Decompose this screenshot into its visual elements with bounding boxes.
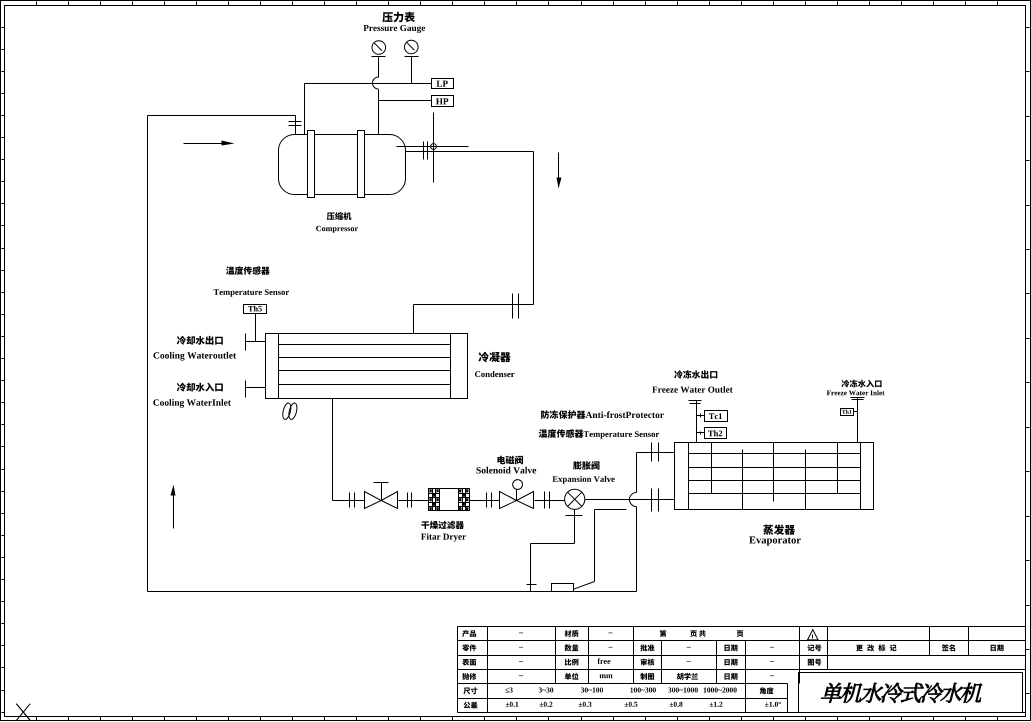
label Freeze Water Inlet — [827, 390, 885, 395]
cooling water inlet stub — [246, 381, 266, 398]
label Freeze Water Outlet — [652, 386, 733, 393]
label Pressure Gauge — [363, 25, 425, 33]
frame zone ticks left — [2, 28, 5, 713]
compressor band left — [308, 131, 315, 198]
equalizer tap tick — [527, 584, 537, 586]
freeze water inlet stub — [851, 398, 865, 443]
sensing bulb box — [552, 584, 574, 592]
condenser fan symbol — [281, 402, 298, 420]
gauge 2 stem — [411, 57, 413, 84]
title block row6 texts — [464, 702, 781, 709]
label Cooling Wateroutlet — [154, 352, 237, 361]
union 4 on liquid line — [545, 492, 550, 509]
wire LP sense line — [305, 84, 432, 135]
wire liquid line segment 2 — [399, 500, 429, 502]
union 1 on liquid line — [350, 493, 355, 508]
wire capillary to bulb — [573, 510, 626, 590]
frame zone ticks bottom — [37, 717, 998, 721]
wire Th5 stem — [255, 314, 257, 342]
wire suction loop top horizontal — [148, 115, 296, 117]
revision triangle symbol — [808, 630, 819, 640]
gauge 1 stem with hop — [373, 57, 379, 135]
title box — [799, 673, 1023, 713]
label freeze water inlet CJK — [842, 380, 882, 388]
Tc1 sensor box — [697, 411, 728, 422]
wire suction bottom horizontal — [148, 591, 637, 593]
node circle at discharge crossing — [431, 144, 437, 150]
label pressure gauge CJK — [382, 12, 415, 22]
label evaporator CJK — [763, 525, 795, 535]
flow arrow up (suction bottom left) — [171, 485, 176, 529]
label Compressor — [316, 226, 358, 233]
wire discharge stub — [397, 146, 469, 148]
wire discharge top of condenser — [414, 304, 534, 306]
title block row3 texts — [462, 658, 821, 665]
union 2 on liquid line — [408, 493, 412, 508]
evaporator shell — [675, 443, 874, 510]
wire suction from evaporator — [637, 452, 675, 454]
pressure gauge 1 (LP) — [372, 41, 386, 57]
main title text — [820, 683, 985, 703]
label solenoid valve CJK — [497, 456, 523, 465]
label temperature sensor CJK — [226, 266, 270, 275]
wire liquid line segment 3 — [470, 500, 500, 502]
title block row4 texts — [462, 673, 774, 680]
frame zone ticks right — [1026, 28, 1030, 694]
union fitting on suction drop — [289, 122, 302, 126]
hand valve — [365, 483, 398, 509]
Th1 sensor box — [841, 409, 858, 416]
flow arrow right (suction) — [184, 141, 235, 146]
label freeze water outlet CJK — [674, 370, 717, 379]
filter dryer — [429, 489, 470, 511]
wire liquid line to evaporator — [585, 499, 675, 501]
compressor band right — [358, 131, 365, 198]
wire suction loop left vertical — [147, 116, 149, 592]
pressure gauge 2 (HP) — [405, 40, 419, 56]
label Evaporator — [749, 537, 801, 546]
crossing line at discharge — [433, 113, 435, 183]
union on condenser inlet — [513, 294, 519, 319]
title block row1 texts — [462, 630, 743, 637]
union on suction — [652, 443, 659, 462]
solenoid valve — [500, 480, 534, 509]
label anti-frost protector — [541, 410, 664, 419]
corner X mark bottom-left — [16, 704, 30, 721]
compressor tank body — [279, 135, 406, 195]
wire discharge right vertical — [533, 152, 535, 305]
condenser shell — [266, 334, 468, 399]
wire condenser outlet drop — [332, 399, 334, 501]
wire equalizer line — [531, 516, 575, 592]
union 5 before evaporator — [652, 489, 659, 512]
label Temperature Sensor — [214, 289, 289, 297]
wire suction downcomer with hop — [629, 453, 636, 592]
wire discharge pipe — [406, 151, 534, 153]
frame zone ticks top — [37, 2, 998, 6]
title block row5 texts — [463, 687, 773, 694]
label Fitar Dryer — [421, 533, 466, 541]
label compressor CJK — [327, 212, 352, 220]
wire liquid line segment 4 — [535, 500, 565, 502]
label Cooling WaterInlet — [153, 399, 231, 408]
flange pair on discharge — [424, 142, 428, 160]
title block row2 texts — [462, 644, 1003, 651]
label Expansion Valve — [552, 476, 614, 484]
flow arrow down (discharge) — [557, 153, 562, 189]
label expansion valve CJK — [573, 461, 599, 470]
cooling water outlet stub — [246, 334, 266, 351]
HP box — [432, 96, 454, 107]
freeze water outlet stub — [689, 401, 702, 443]
wire condenser inlet drop — [413, 305, 415, 334]
wire HP sense line — [379, 100, 432, 102]
label cooling water outlet CJK — [177, 336, 223, 345]
expansion valve — [565, 489, 585, 515]
label Condenser — [475, 371, 515, 377]
LP box — [432, 79, 454, 89]
wire liquid line segment 1 — [333, 500, 365, 502]
label condenser CJK — [479, 352, 511, 362]
union 3 on liquid line — [487, 493, 492, 508]
label Solenoid Valve — [477, 467, 537, 474]
Th2 sensor box — [697, 428, 727, 439]
label temperature sensor right — [539, 429, 659, 439]
Th5 sensor box — [244, 305, 267, 314]
label cooling water inlet CJK — [177, 383, 223, 392]
title block grid — [458, 627, 1026, 713]
label filter dryer CJK — [421, 521, 464, 529]
wire suction drop to compressor — [295, 116, 297, 135]
